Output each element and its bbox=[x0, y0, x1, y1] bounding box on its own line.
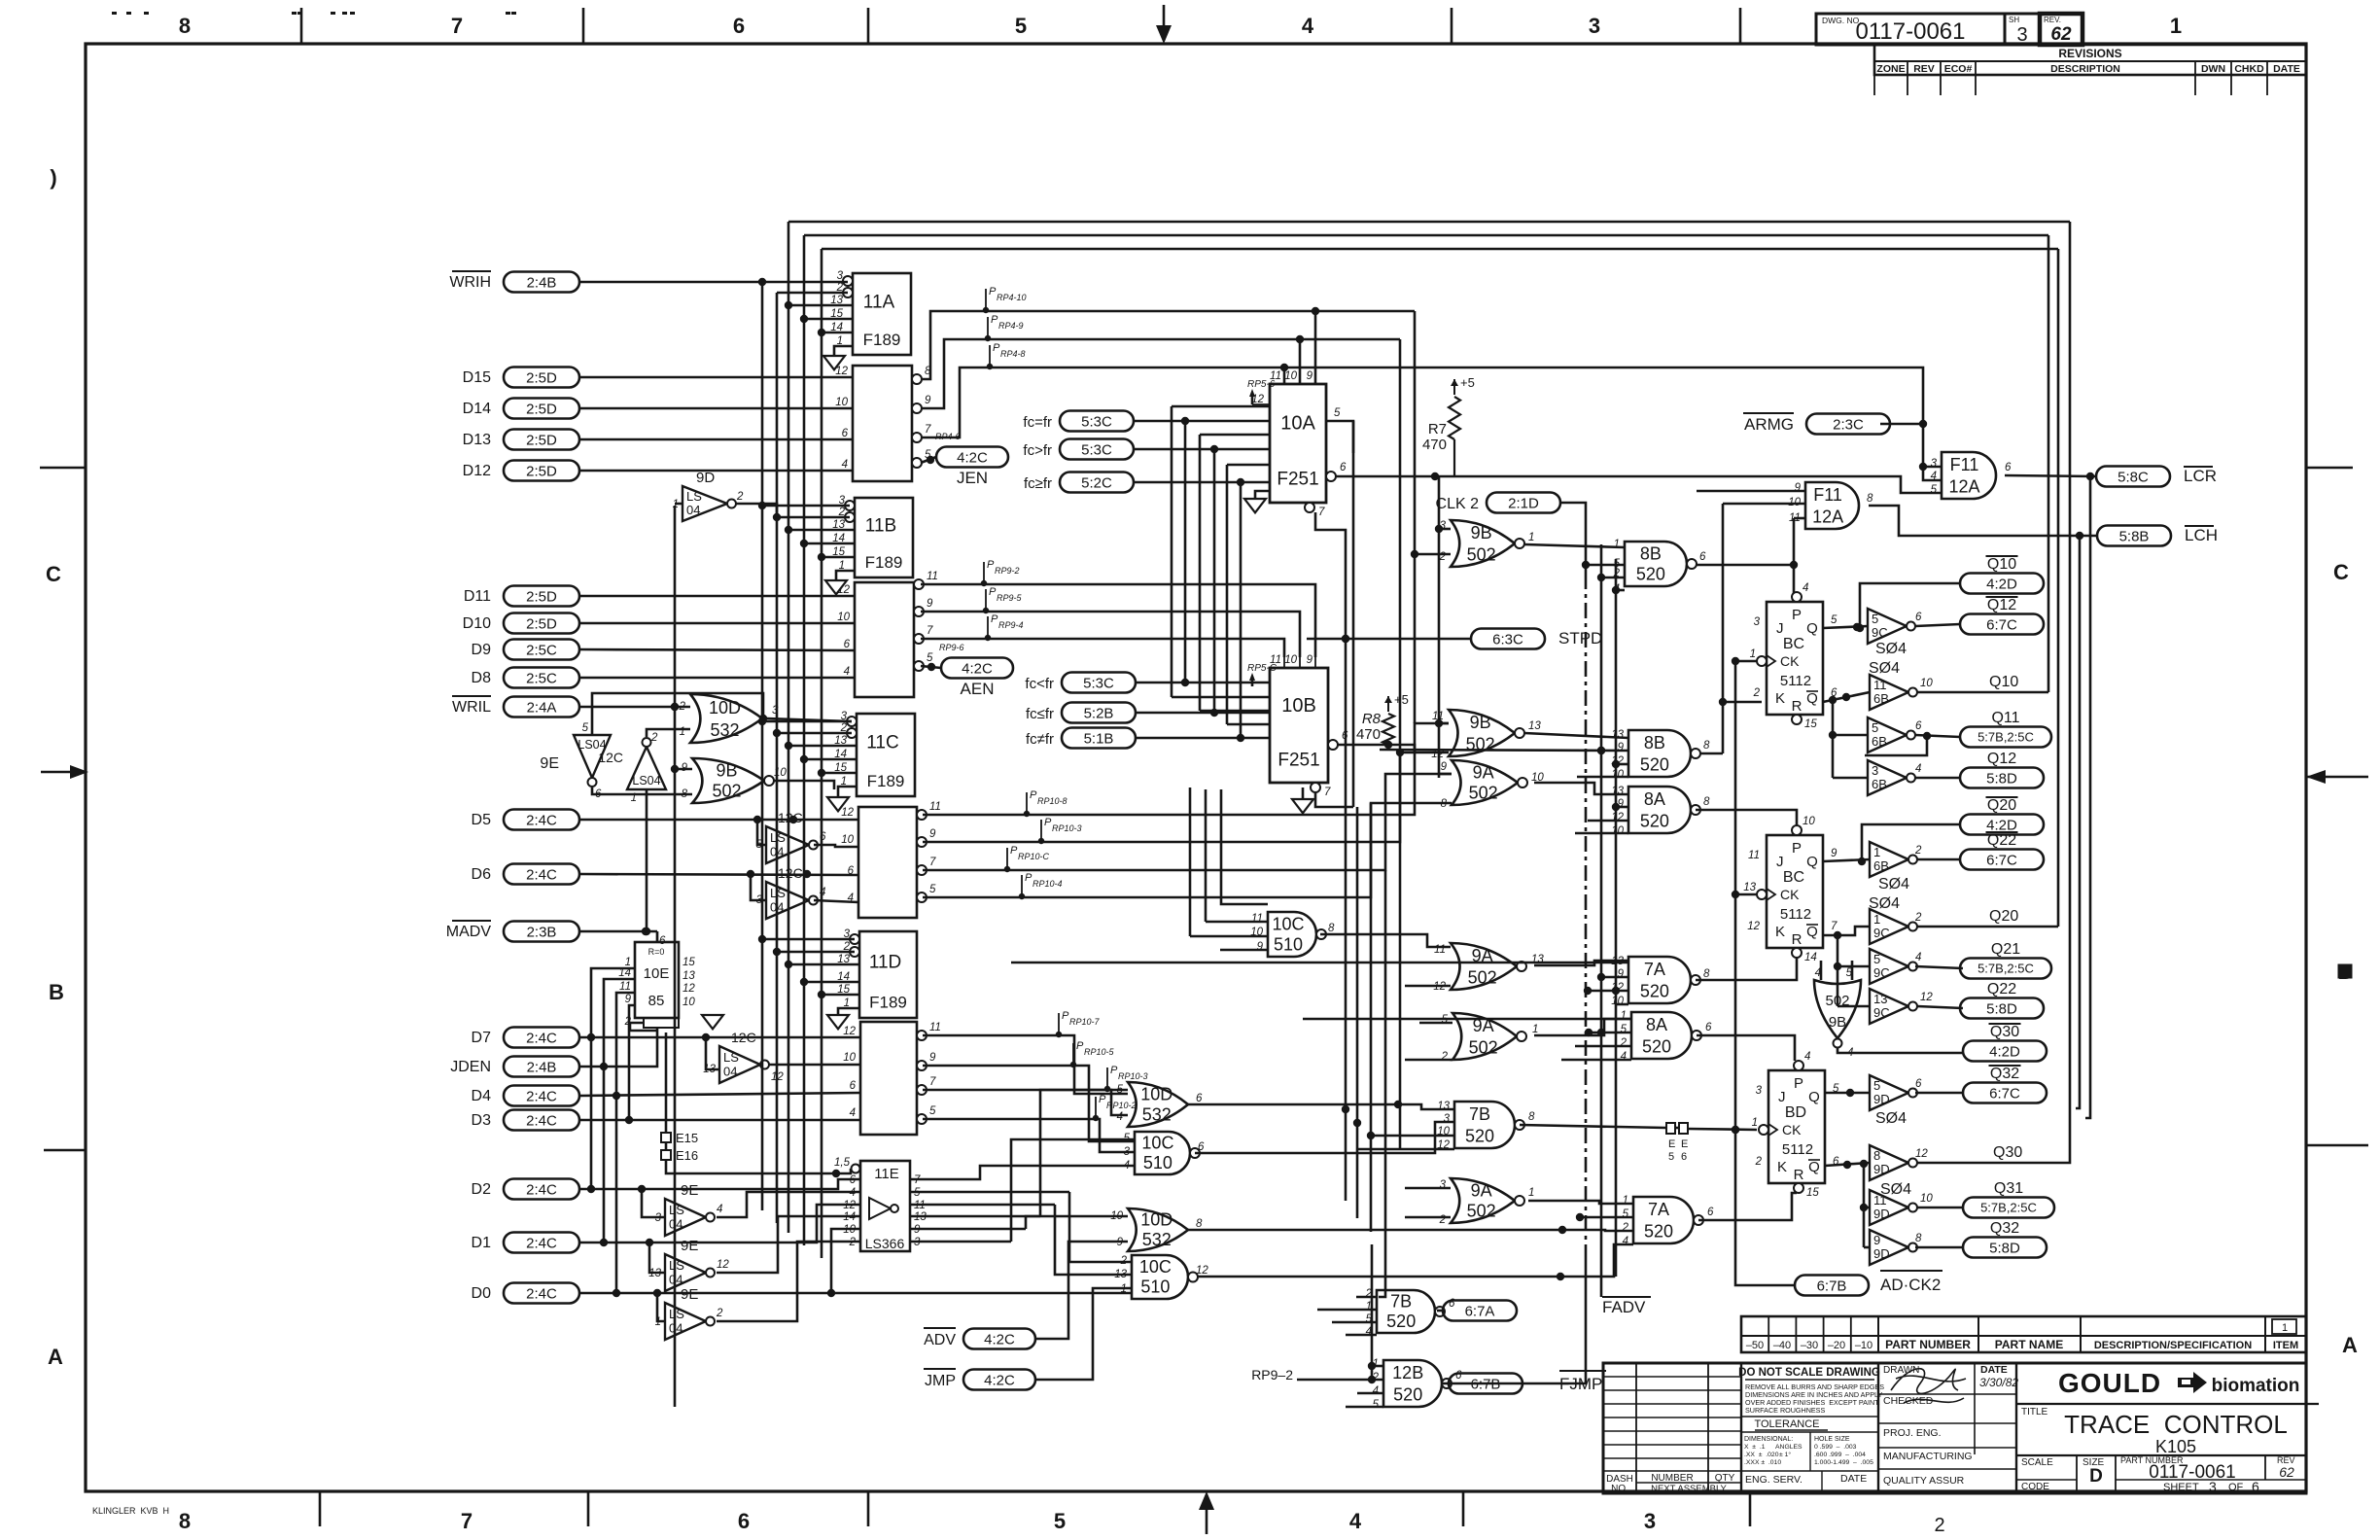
10B pin 7 output bbox=[1311, 783, 1331, 798]
wire 10C mid in3 bbox=[1220, 949, 1268, 952]
pullup tap RP10-4 bbox=[1019, 872, 1063, 899]
svg-text:532: 532 bbox=[1142, 1105, 1172, 1125]
svg-text:4: 4 bbox=[717, 1204, 722, 1215]
svg-text:6: 6 bbox=[1707, 1207, 1714, 1218]
wire vertical x1772 (K feed) bbox=[1719, 504, 1727, 753]
wire D6 to 11C bbox=[579, 870, 858, 878]
output Q10bar (4:2D) bbox=[1960, 556, 2044, 594]
svg-text:RP9-4: RP9-4 bbox=[998, 620, 1024, 630]
wire 9B mid pin11 stub bbox=[1439, 722, 1449, 725]
wire 7A pin9 bbox=[1601, 976, 1628, 979]
bottom zone ticks bbox=[320, 1491, 1750, 1526]
svg-text:7: 7 bbox=[461, 1509, 472, 1533]
svg-text:2:5D: 2:5D bbox=[526, 463, 557, 479]
wire WRIH to 11A pin 3 bbox=[579, 278, 848, 286]
svg-text:J: J bbox=[1778, 1089, 1786, 1105]
wire 8B low pin12 bbox=[1616, 763, 1628, 766]
wire F11 pin3 stub bbox=[1923, 466, 1942, 469]
wire 7B low pin5 bbox=[1332, 1321, 1377, 1324]
svg-text:CHKD: CHKD bbox=[2234, 63, 2264, 75]
svg-text:10: 10 bbox=[1611, 769, 1624, 781]
inverter 9E LS04 (D0) bbox=[655, 1286, 723, 1340]
svg-text:RP9–2: RP9–2 bbox=[1251, 1367, 1293, 1382]
svg-text:1: 1 bbox=[2170, 14, 2182, 38]
svg-text:3: 3 bbox=[1644, 1509, 1656, 1533]
svg-text:WRIL: WRIL bbox=[452, 699, 491, 716]
svg-text:6: 6 bbox=[733, 14, 745, 38]
wire 11C pin3 stub bbox=[762, 720, 852, 723]
svg-text:510: 510 bbox=[1143, 1153, 1172, 1172]
wire 10B pin14 stub bbox=[1172, 696, 1270, 699]
plot stamp bbox=[92, 1506, 169, 1516]
svg-text:5:3C: 5:3C bbox=[1081, 413, 1112, 430]
output Q22bar (6:7C) bbox=[1960, 832, 2044, 870]
svg-text:P: P bbox=[1030, 789, 1037, 801]
svg-text:2:4C: 2:4C bbox=[526, 866, 557, 883]
svg-text:6: 6 bbox=[1455, 1370, 1462, 1382]
wire BC2 Q to 6B bbox=[1823, 859, 1870, 861]
wire 8B pin5 from CLK2 bbox=[1586, 564, 1625, 567]
svg-text:10D: 10D bbox=[1140, 1210, 1172, 1230]
svg-text:Q: Q bbox=[1806, 854, 1818, 870]
wire mid vertical x1662 bbox=[1612, 559, 1620, 1277]
svg-text:CK: CK bbox=[1780, 887, 1800, 902]
wire 8A low pin4 bbox=[1561, 1059, 1631, 1062]
svg-text:2:4C: 2:4C bbox=[526, 1030, 557, 1046]
svg-text:SØ4: SØ4 bbox=[1875, 1110, 1907, 1127]
hex buffer 11E LS366 bbox=[834, 1157, 927, 1251]
multiplexer 10A F251 bbox=[1270, 384, 1326, 503]
wire vertical x1411 bbox=[1371, 1244, 1374, 1380]
input connector D0 (2:4C) bbox=[472, 1283, 579, 1304]
wire 9D out to Q32 bbox=[1915, 1246, 1963, 1249]
wire 6B Q12 stub bbox=[1833, 777, 1868, 780]
pullup tap RP10-3 bbox=[1038, 817, 1082, 844]
svg-text:9: 9 bbox=[929, 1052, 936, 1064]
svg-text:A: A bbox=[48, 1345, 63, 1369]
svg-text:SH: SH bbox=[2009, 16, 2019, 24]
svg-text:2:5C: 2:5C bbox=[526, 670, 557, 686]
wire 11B pin13 stub bbox=[788, 529, 855, 532]
NOR 9B 502 (down-pointing) bbox=[1814, 967, 1861, 1059]
svg-text:4:2D: 4:2D bbox=[1986, 817, 2017, 833]
svg-text:9: 9 bbox=[925, 395, 931, 406]
wire Q30 from inverter 9D bbox=[1917, 1157, 2070, 1163]
input connector D11 (2:5D) bbox=[464, 586, 579, 607]
svg-text:ZONE: ZONE bbox=[1876, 63, 1905, 75]
wire 11E drop 3 bbox=[1040, 1090, 1128, 1216]
wire bus vertical x799 bbox=[773, 293, 781, 1223]
svg-text:8A: 8A bbox=[1644, 789, 1665, 809]
NAND 8A 520 (upper) bbox=[1611, 786, 1710, 837]
svg-text:10C: 10C bbox=[1272, 914, 1304, 933]
wire 10C mid in2 bbox=[1190, 935, 1268, 938]
svg-text:4: 4 bbox=[844, 666, 850, 678]
wire 9A bottom pin2 bbox=[1405, 1216, 1451, 1219]
wire 8B low pin10 bbox=[1577, 776, 1628, 779]
svg-text:12: 12 bbox=[682, 983, 695, 995]
wire 9D out to Q31 bbox=[1917, 1207, 1963, 1209]
input fc>=fr (5:2C) bbox=[1024, 472, 1134, 493]
svg-text:DWN: DWN bbox=[2201, 63, 2225, 75]
svg-text:D: D bbox=[2089, 1466, 2103, 1487]
left zone letter C bbox=[46, 562, 61, 586]
wire 9A bottom pins bbox=[1405, 1187, 1451, 1190]
svg-text:OF: OF bbox=[2228, 1482, 2244, 1493]
output Q21 (5:7B,2:5C) bbox=[1960, 941, 2051, 979]
wire 9E out (D2) to 11E bbox=[717, 1192, 860, 1217]
svg-text:1: 1 bbox=[1528, 532, 1534, 543]
wire 8A low out to BD P bbox=[1697, 1035, 1795, 1061]
node Q10 bbox=[1989, 674, 2018, 690]
svg-text:11A: 11A bbox=[863, 292, 895, 312]
comparator 10E 85 bbox=[618, 931, 695, 1028]
svg-text:E15: E15 bbox=[676, 1131, 698, 1145]
wire 10C upper out bbox=[1195, 1122, 1454, 1153]
drawing-number box bbox=[1816, 14, 2082, 46]
svg-text:F189: F189 bbox=[869, 993, 907, 1011]
wire mux bus vertical 1 bbox=[1171, 406, 1173, 697]
svg-text:9B: 9B bbox=[1471, 523, 1492, 542]
svg-text:CK: CK bbox=[1780, 653, 1800, 669]
svg-text:2:3B: 2:3B bbox=[527, 924, 557, 940]
top zone numbers bbox=[179, 14, 2182, 38]
svg-text:7: 7 bbox=[1318, 507, 1325, 518]
svg-text:A: A bbox=[2342, 1333, 2358, 1357]
svg-text:FADV: FADV bbox=[1602, 1298, 1646, 1316]
svg-text:10: 10 bbox=[1284, 370, 1297, 382]
inverter 9D (Q32bar) bbox=[1870, 1075, 1922, 1127]
wire D0 to 9E bbox=[657, 1293, 665, 1321]
wire E15 net bbox=[665, 1032, 668, 1133]
wire D10 to 11B bbox=[579, 622, 855, 625]
wire 11E drop 2 bbox=[1055, 1205, 1132, 1275]
svg-text:SCALE: SCALE bbox=[2021, 1457, 2053, 1468]
svg-text:Q: Q bbox=[1808, 1159, 1820, 1175]
wire 7A pin12 bbox=[1584, 987, 1628, 995]
wire D2 to 9E bbox=[642, 1189, 665, 1217]
wire Q10bar feed bbox=[1856, 583, 1960, 632]
svg-text:D15: D15 bbox=[463, 369, 491, 386]
svg-text:Q22: Q22 bbox=[1987, 832, 2016, 849]
svg-text:9: 9 bbox=[1831, 848, 1837, 859]
svg-text:520: 520 bbox=[1386, 1312, 1416, 1331]
output 6:7A (FADV) bbox=[1443, 1297, 1651, 1321]
svg-text:4: 4 bbox=[1302, 14, 1314, 38]
svg-text:12: 12 bbox=[1915, 1148, 1928, 1160]
svg-text:520: 520 bbox=[1640, 754, 1669, 774]
wire 6B out to Q12 bbox=[1915, 777, 1960, 780]
svg-text:2:4C: 2:4C bbox=[526, 1285, 557, 1302]
svg-text:9B: 9B bbox=[1829, 1014, 1846, 1031]
input connector JDEN (2:4B) bbox=[450, 1057, 579, 1077]
input connector D9 (2:5C) bbox=[472, 640, 579, 660]
svg-text:RP10-3: RP10-3 bbox=[1052, 823, 1082, 833]
svg-text:1: 1 bbox=[1614, 539, 1620, 550]
svg-text:8: 8 bbox=[1915, 1233, 1922, 1244]
svg-text:4: 4 bbox=[1349, 1509, 1362, 1533]
wire 9A low out to 8A bbox=[1534, 1019, 1631, 1035]
10A pin 7 output bbox=[1305, 503, 1325, 518]
svg-text:8: 8 bbox=[1528, 1111, 1535, 1123]
svg-text:9E: 9E bbox=[681, 1238, 698, 1254]
svg-text:3: 3 bbox=[2209, 1479, 2217, 1494]
resistor R7 470 bbox=[1422, 375, 1475, 476]
svg-text:12: 12 bbox=[1747, 921, 1760, 932]
svg-text:6B: 6B bbox=[1872, 734, 1887, 749]
svg-text:5112: 5112 bbox=[1780, 906, 1811, 923]
svg-text:RP4-9: RP4-9 bbox=[998, 321, 1024, 331]
svg-text:14: 14 bbox=[1804, 952, 1817, 963]
svg-text:6B: 6B bbox=[1872, 777, 1887, 791]
svg-text:8: 8 bbox=[179, 1509, 191, 1533]
10A pin 5 output bbox=[1326, 407, 1353, 453]
wire 8A pin9 bbox=[1616, 806, 1628, 809]
inverter 9D (Q30) bbox=[1870, 1145, 1928, 1198]
svg-text:11B: 11B bbox=[865, 515, 896, 536]
wire 6B out to Q11 bbox=[1915, 732, 1960, 740]
svg-text:Q12: Q12 bbox=[1987, 597, 2016, 613]
svg-text:P: P bbox=[1110, 1065, 1118, 1076]
pullup tap RP4-8 bbox=[987, 342, 1026, 369]
wire Q20bar feed bbox=[1858, 824, 1960, 865]
inverter 9C (Q22) bbox=[1870, 989, 1933, 1024]
input connector D8 (2:5C) bbox=[472, 668, 579, 688]
svg-text:10: 10 bbox=[835, 397, 848, 408]
svg-text:2:4B: 2:4B bbox=[527, 1059, 557, 1075]
wire 11E out5 bbox=[910, 1191, 1069, 1194]
wire D12 to 11A bbox=[579, 470, 853, 472]
svg-text:4: 4 bbox=[1802, 582, 1808, 594]
input fc<fr (5:3C) bbox=[1025, 673, 1136, 693]
jumper E6 bbox=[1679, 1123, 1688, 1163]
right zone letter C bbox=[2333, 560, 2349, 584]
svg-text:8: 8 bbox=[1703, 740, 1710, 752]
svg-text:DIMENSIONAL:: DIMENSIONAL: bbox=[1744, 1436, 1793, 1443]
wire D14 to 11A bbox=[579, 407, 853, 410]
svg-text:D3: D3 bbox=[472, 1112, 492, 1129]
svg-text:6: 6 bbox=[842, 428, 849, 439]
wire 10A pin10 entry bbox=[1299, 339, 1302, 384]
wire 7B pin12 bbox=[1357, 1148, 1454, 1151]
svg-text:SØ4: SØ4 bbox=[1875, 641, 1907, 657]
NOR 9B 502 (WRIL area) bbox=[682, 758, 787, 803]
wire 7B pin10 bbox=[1371, 1135, 1454, 1137]
wire CLK2 dashed vertical bbox=[1585, 574, 1588, 1254]
svg-text:520: 520 bbox=[1465, 1126, 1494, 1145]
scan speckles bbox=[112, 12, 516, 15]
svg-text:LCR: LCR bbox=[2184, 467, 2217, 485]
wire D11 to 11B bbox=[579, 595, 855, 598]
svg-text:6:7A: 6:7A bbox=[1465, 1303, 1495, 1319]
input connector D6 (2:4C) bbox=[472, 864, 579, 885]
wire 11C pin2 stub bbox=[777, 732, 852, 735]
svg-text:C: C bbox=[2333, 560, 2349, 584]
wire 10A pin15 stub bbox=[1200, 434, 1270, 437]
svg-text:RP10-4: RP10-4 bbox=[1032, 879, 1063, 889]
10A pin 6 output bbox=[1326, 462, 1347, 481]
pullup tap RP10-C bbox=[1004, 845, 1050, 872]
svg-text:3: 3 bbox=[837, 270, 844, 282]
svg-text:fc=fr: fc=fr bbox=[1023, 414, 1052, 431]
NAND 8B 520 (lower) bbox=[1611, 729, 1710, 781]
pullup tap RP10-3 bbox=[1104, 1065, 1148, 1092]
wire 10C mid inputs bbox=[1206, 921, 1268, 924]
wire Qbar branch x1885 bbox=[1829, 700, 1837, 778]
wire 9E output to 9B pin8 bbox=[592, 787, 692, 794]
wire 12C out (D5) bbox=[814, 845, 858, 847]
svg-text:WRIH: WRIH bbox=[449, 274, 491, 291]
wire 11C out7 bbox=[923, 774, 1452, 870]
svg-text:10E: 10E bbox=[644, 965, 670, 982]
wire 9E loop top bbox=[592, 693, 767, 735]
wire Q30 feedback vertical bbox=[2069, 222, 2072, 1157]
wire mid vertical x1647 bbox=[1597, 544, 1605, 1297]
wire 8A pin10 bbox=[1575, 832, 1628, 835]
svg-text:9B: 9B bbox=[717, 760, 738, 780]
svg-text:BD: BD bbox=[1785, 1104, 1806, 1121]
svg-text:P: P bbox=[1792, 607, 1802, 623]
wire 11A pin2 stub bbox=[777, 292, 848, 295]
svg-text:10: 10 bbox=[1284, 654, 1297, 666]
wire 10B drop extra bbox=[1221, 789, 1268, 904]
svg-text:8: 8 bbox=[1703, 796, 1710, 808]
wire STPD line bbox=[1307, 635, 1471, 643]
NOR 9A 502 (lower) bbox=[1441, 1013, 1539, 1063]
svg-text:BC: BC bbox=[1783, 636, 1804, 652]
svg-text:5: 5 bbox=[582, 722, 589, 734]
NOR 9B 502 (top) bbox=[1439, 520, 1535, 567]
svg-text:J: J bbox=[1776, 620, 1784, 637]
wire 6B Q11 stub bbox=[1833, 734, 1868, 737]
wire 9D Q32 stub bbox=[1864, 1246, 1870, 1249]
wire F11 left pin11 stub bbox=[1794, 517, 1805, 520]
wire 10A pin9 entry bbox=[1314, 311, 1317, 384]
wire 10A pin2 stub bbox=[1227, 464, 1270, 467]
wire 9B out bbox=[774, 781, 834, 789]
wire 10A pin11 entry bbox=[1283, 367, 1286, 384]
wire 11A out5 to JEN bbox=[921, 456, 936, 464]
svg-text:7: 7 bbox=[927, 625, 933, 637]
svg-text:12: 12 bbox=[843, 1026, 856, 1037]
svg-text:E: E bbox=[1668, 1138, 1675, 1150]
wire 7A low out to BD R bbox=[1698, 1193, 1797, 1220]
svg-text:6: 6 bbox=[1915, 720, 1922, 732]
svg-text:6: 6 bbox=[659, 935, 666, 947]
wire 11B out11 (RP9-2) bbox=[921, 584, 1315, 657]
wire fc!=fr to 10B bbox=[1136, 734, 1270, 742]
svg-text:KLINGLER KVB H: KLINGLER KVB H bbox=[92, 1506, 169, 1516]
left margin mark bbox=[50, 165, 56, 190]
svg-text:2: 2 bbox=[716, 1308, 723, 1319]
svg-text:JMP: JMP bbox=[925, 1373, 956, 1389]
svg-text:Q: Q bbox=[1808, 1089, 1820, 1105]
svg-text:LS: LS bbox=[669, 1203, 684, 1217]
10A RP5-6 pullup note bbox=[1247, 379, 1276, 405]
left zone letter A bbox=[48, 1345, 63, 1369]
wire 11C pin13 stub bbox=[788, 745, 857, 748]
svg-text:5: 5 bbox=[929, 1105, 936, 1117]
svg-text:K: K bbox=[1777, 1159, 1787, 1175]
input ADV (4:2C) bbox=[924, 1328, 1035, 1349]
wire 9A out to 8A pin13 bbox=[1534, 783, 1628, 794]
svg-text:9A: 9A bbox=[1473, 762, 1494, 782]
svg-text:12: 12 bbox=[1196, 1265, 1208, 1277]
NAND 7A 520 (upper) bbox=[1611, 956, 1710, 1007]
wire D1 to 9E bbox=[649, 1242, 665, 1273]
ground near 10E bbox=[702, 1015, 723, 1029]
svg-text:7A: 7A bbox=[1644, 960, 1665, 979]
svg-text:P: P bbox=[1062, 1010, 1069, 1022]
wire 8A pin12 bbox=[1588, 820, 1628, 822]
svg-text:2: 2 bbox=[1755, 1156, 1763, 1168]
svg-text:2: 2 bbox=[1914, 845, 1922, 857]
output LCR (5:8C) bbox=[2096, 467, 2217, 487]
svg-text:Q30: Q30 bbox=[1993, 1144, 2022, 1161]
svg-text:E: E bbox=[1681, 1138, 1688, 1150]
wire 9A mid out to 7A bbox=[1534, 961, 1628, 965]
svg-text:D5: D5 bbox=[472, 812, 492, 828]
input fc>fr (5:3C) bbox=[1023, 439, 1134, 460]
wire 10A pin7 route bbox=[1315, 512, 1346, 639]
svg-text:62: 62 bbox=[2050, 24, 2072, 45]
node RP9-2 bbox=[1251, 1367, 1293, 1382]
wire vertical x694 bbox=[671, 506, 679, 1407]
input CLK2 (2:1D) bbox=[1436, 493, 1560, 513]
svg-text:5:8B: 5:8B bbox=[2119, 528, 2150, 544]
title block main section bbox=[2016, 1368, 2319, 1494]
inverter 6B (Q22bar) bbox=[1870, 842, 1922, 892]
svg-text:10: 10 bbox=[1802, 816, 1815, 827]
pullup tap RP9-2 bbox=[981, 559, 1020, 586]
svg-text:P: P bbox=[1792, 840, 1802, 857]
wire 10C mid vertical bbox=[1205, 789, 1207, 922]
svg-text:12A: 12A bbox=[1949, 476, 1980, 496]
svg-text:D4: D4 bbox=[472, 1088, 492, 1104]
svg-text:PART NAME: PART NAME bbox=[1995, 1338, 2063, 1351]
svg-text:SØ4: SØ4 bbox=[1869, 660, 1900, 677]
wire 10B pin1 stub bbox=[1227, 723, 1270, 726]
svg-text:Q: Q bbox=[1806, 690, 1818, 707]
svg-text:.600 .999 – .004: .600 .999 – .004 bbox=[1814, 1452, 1866, 1458]
svg-text:8: 8 bbox=[1867, 493, 1873, 505]
svg-text:D6: D6 bbox=[472, 866, 492, 883]
NAND 8A 520 (lower) bbox=[1620, 1010, 1712, 1063]
svg-text:5: 5 bbox=[927, 652, 933, 664]
svg-text:SØ4: SØ4 bbox=[1878, 876, 1909, 892]
wire BC P vertical bbox=[1793, 518, 1796, 593]
svg-text:5:3C: 5:3C bbox=[1081, 441, 1112, 458]
svg-text:P: P bbox=[1010, 845, 1018, 857]
wire mid vertical x1425b bbox=[1379, 870, 1385, 1297]
wire WRIL to 10D bbox=[579, 703, 690, 711]
svg-text:4: 4 bbox=[1117, 1111, 1123, 1123]
svg-text:6: 6 bbox=[1198, 1141, 1205, 1153]
svg-text:RP10-8: RP10-8 bbox=[1037, 796, 1067, 806]
svg-text:6:7C: 6:7C bbox=[1986, 616, 2017, 633]
svg-text:TOLERANCE: TOLERANCE bbox=[1754, 1418, 1819, 1430]
svg-text:F189: F189 bbox=[867, 772, 905, 790]
svg-text:5:8D: 5:8D bbox=[1986, 770, 2017, 787]
wire 10C mid vertical2 bbox=[1189, 787, 1192, 936]
pullup tap RP10-5 bbox=[1070, 1040, 1115, 1067]
wire 9B pin9 stub bbox=[671, 765, 692, 773]
svg-text:P: P bbox=[1076, 1040, 1084, 1052]
svg-text:4:2D: 4:2D bbox=[1986, 576, 2017, 592]
wire 12C out to 11D pin10 bbox=[768, 1064, 860, 1067]
svg-text:2:4C: 2:4C bbox=[526, 1088, 557, 1104]
left zone letter B bbox=[49, 980, 64, 1004]
